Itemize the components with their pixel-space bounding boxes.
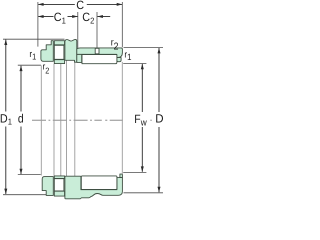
wire Fw dimension upper	[141, 64, 144, 112]
wire centerline dash-dot	[32, 119, 46, 121]
wire C2 outside arrow right	[97, 15, 110, 18]
svg-text:Fw: Fw	[134, 112, 146, 129]
strip over roller bottom	[54, 176, 64, 179]
wire d dimension upper	[20, 66, 23, 112]
white roller rect bottom	[81, 176, 117, 190]
wire silhouette line x=54	[53, 64, 55, 176]
wire silhouette line x=41.3	[40, 65, 42, 175]
svg-text:d: d	[18, 112, 24, 126]
outer ring flange bottom	[42, 177, 53, 196]
needle roller bottom	[54, 179, 64, 191]
wire silhouette line x=60.8	[60, 64, 62, 176]
wire D dimension lower	[158, 127, 161, 192]
wire extension line C2 right bar	[96, 12, 98, 53]
leg lip top	[117, 58, 122, 62]
thrust roller strip top	[82, 55, 117, 64]
wire C1 dimension line	[38, 15, 78, 18]
wire C dimension line	[38, 3, 122, 6]
wire extension line C1 C2 shared	[77, 12, 79, 49]
strip under needle roller top	[54, 60, 64, 64]
wire D dimension upper	[158, 48, 161, 112]
wire d bottom extension	[18, 174, 41, 176]
wire D bottom extension	[124, 192, 164, 194]
notch in bar top	[95, 48, 99, 54]
needle roller top	[54, 45, 64, 59]
wire Fw top extension	[123, 62, 146, 64]
leg lip bottom	[120, 174, 123, 177]
svg-text:C2: C2	[82, 10, 94, 25]
wire D1 top extension	[3, 38, 65, 40]
wire d top extension	[18, 64, 41, 66]
svg-text:r1: r1	[29, 49, 36, 61]
wire D1 bottom extension	[3, 194, 46, 196]
wire d dimension lower	[20, 127, 23, 175]
wire silhouette line x=74.8	[74, 62, 76, 176]
strip under roller bottom	[54, 191, 64, 196]
wire extension line right C	[121, 2, 123, 47]
svg-text:C1: C1	[54, 10, 66, 25]
wire silhouette line x=122.3 lower	[121, 62, 123, 174]
svg-text:r2: r2	[43, 61, 50, 75]
wire D top extension	[124, 47, 164, 49]
thrust bar and leg top	[77, 48, 123, 58]
wire silhouette line x=66.5	[66, 61, 68, 177]
cap strip over needle roller top	[54, 41, 64, 45]
wire Fw bottom extension	[123, 171, 146, 173]
wire D1 dimension upper	[4, 39, 7, 111]
shaft washer wavy piece top	[65, 39, 77, 62]
wire extension line left C	[37, 2, 39, 47]
bottom right body with squiggle and leg	[65, 176, 123, 199]
wire D1 dimension lower	[4, 127, 7, 195]
shaft washer tab top	[77, 54, 82, 62]
svg-text:D: D	[155, 112, 164, 126]
wire Fw dimension lower	[141, 127, 144, 172]
outer ring flange top	[41, 41, 53, 62]
svg-text:r1: r1	[124, 49, 131, 62]
svg-text:D1: D1	[0, 111, 12, 126]
